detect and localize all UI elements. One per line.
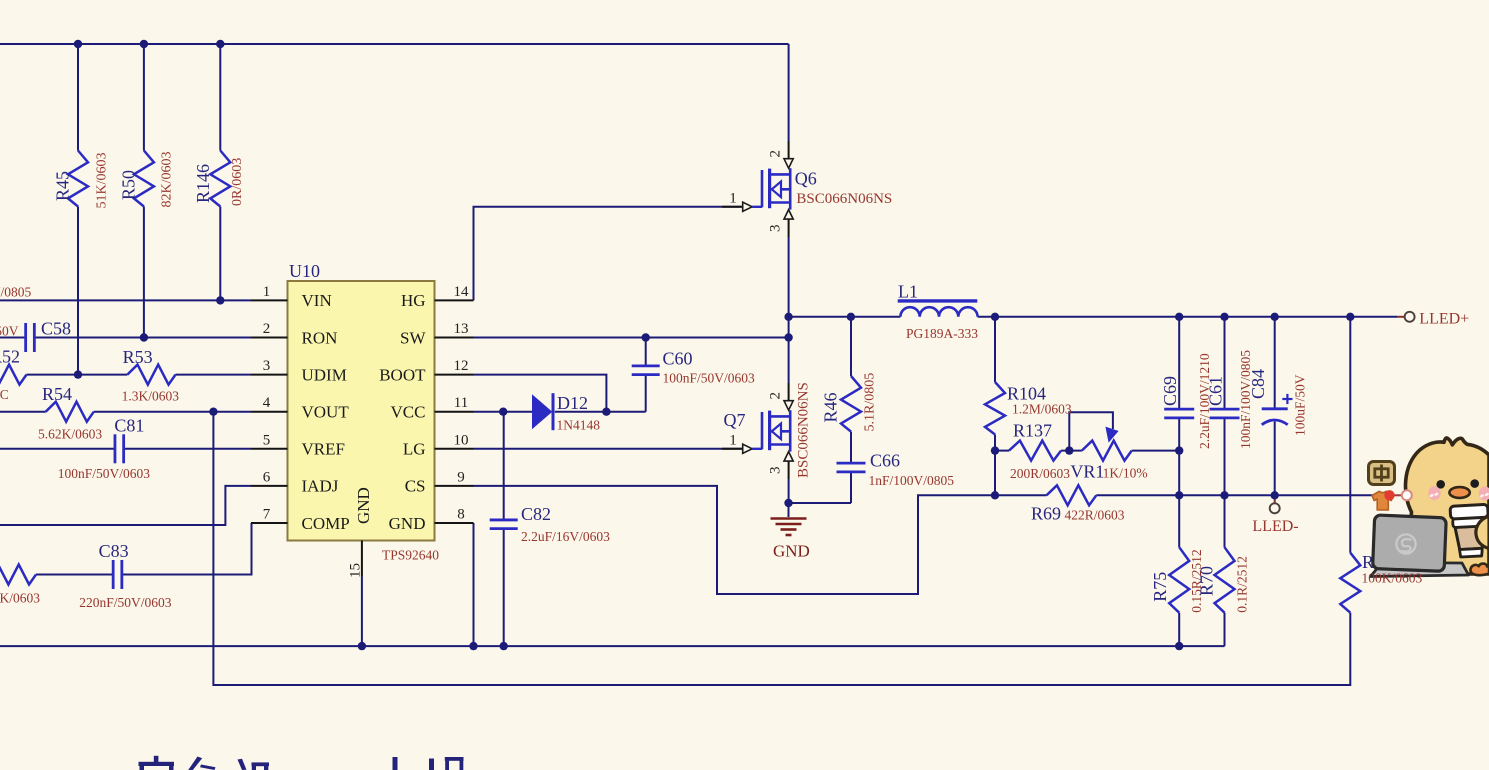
svg-text:PG189A-333: PG189A-333 — [906, 326, 978, 341]
svg-text:R104: R104 — [1007, 384, 1046, 404]
svg-text:7: 7 — [263, 507, 271, 523]
svg-text:C81: C81 — [114, 416, 144, 436]
svg-text:2: 2 — [768, 392, 784, 400]
svg-text:LG: LG — [403, 440, 426, 459]
svg-text:R70: R70 — [1197, 566, 1217, 596]
svg-text:R69: R69 — [1031, 504, 1061, 524]
svg-text:6: 6 — [263, 469, 271, 485]
svg-text:1.2M/0603: 1.2M/0603 — [1012, 402, 1072, 417]
svg-text:R75: R75 — [1150, 572, 1170, 602]
svg-text:14: 14 — [454, 284, 470, 300]
svg-text:5.62K/0603: 5.62K/0603 — [38, 427, 102, 442]
svg-text:C58: C58 — [41, 319, 71, 339]
svg-text:Q7: Q7 — [724, 410, 746, 430]
svg-text:Q6: Q6 — [795, 169, 817, 189]
svg-text:10: 10 — [454, 432, 469, 448]
svg-text:9: 9 — [457, 469, 465, 485]
svg-text:VCC: VCC — [391, 403, 426, 422]
svg-text:IADJ: IADJ — [302, 477, 339, 496]
svg-text:2: 2 — [263, 321, 271, 337]
svg-text:1nF/100V/0805: 1nF/100V/0805 — [869, 473, 955, 488]
svg-text:TPS92640: TPS92640 — [382, 548, 439, 563]
svg-text:1N4148: 1N4148 — [557, 418, 601, 433]
svg-text:200R/0603: 200R/0603 — [1010, 466, 1070, 481]
svg-text:R45: R45 — [53, 171, 73, 201]
svg-text:GND: GND — [354, 487, 373, 524]
svg-text:100nF/50V/0603: 100nF/50V/0603 — [58, 466, 151, 481]
svg-text:100uF/50V: 100uF/50V — [1293, 374, 1308, 436]
svg-text:NC: NC — [0, 387, 9, 402]
svg-text:SW: SW — [400, 328, 426, 347]
svg-text:C83: C83 — [99, 541, 129, 561]
svg-text:1K/10%: 1K/10% — [1103, 466, 1148, 481]
svg-text:0R/0603: 0R/0603 — [230, 158, 245, 206]
svg-text:L1: L1 — [898, 282, 918, 302]
svg-text:D12: D12 — [557, 393, 588, 413]
svg-text:R54: R54 — [42, 384, 72, 404]
svg-text:12: 12 — [454, 358, 469, 374]
svg-text:11: 11 — [454, 395, 468, 411]
svg-text:15: 15 — [348, 563, 364, 578]
svg-text:1: 1 — [729, 191, 737, 207]
svg-text:VREF: VREF — [302, 440, 345, 459]
svg-text:R137: R137 — [1013, 421, 1052, 441]
svg-text:HG: HG — [401, 291, 426, 310]
svg-text:GND: GND — [773, 542, 810, 561]
svg-text:2.2uF/16V/0603: 2.2uF/16V/0603 — [521, 529, 610, 544]
svg-text:5.1R/0805: 5.1R/0805 — [863, 373, 878, 432]
svg-text:R53: R53 — [123, 347, 153, 367]
svg-text:COMP: COMP — [302, 514, 350, 533]
svg-text:C60: C60 — [663, 349, 693, 369]
svg-text:3: 3 — [768, 467, 784, 475]
svg-text:C69: C69 — [1160, 376, 1180, 406]
svg-text:BSC066N06NS: BSC066N06NS — [796, 382, 812, 478]
svg-text:R50: R50 — [118, 170, 138, 200]
svg-text:5: 5 — [263, 432, 271, 448]
svg-text:U10: U10 — [289, 261, 320, 281]
svg-text:CS: CS — [405, 477, 426, 496]
svg-text:100K/0603: 100K/0603 — [1362, 571, 1423, 586]
svg-text:VIN: VIN — [302, 291, 332, 310]
svg-text:1.3K/0603: 1.3K/0603 — [122, 389, 180, 404]
svg-text:RON: RON — [302, 328, 338, 347]
svg-text:UDIM: UDIM — [302, 365, 347, 384]
svg-text:C66: C66 — [870, 451, 900, 471]
svg-text:422R/0603: 422R/0603 — [1065, 508, 1125, 523]
svg-text:82K/0603: 82K/0603 — [160, 152, 175, 208]
svg-text:8: 8 — [457, 507, 465, 523]
svg-text:100nF/50V/0603: 100nF/50V/0603 — [663, 371, 756, 386]
svg-text:1: 1 — [729, 433, 737, 449]
svg-text:100nF/50V: 100nF/50V — [0, 324, 19, 339]
svg-text:220nF/50V/0603: 220nF/50V/0603 — [79, 595, 172, 610]
svg-text:100nF/50V/0805: 100nF/50V/0805 — [0, 285, 32, 300]
svg-text:3: 3 — [263, 358, 271, 374]
svg-text:VR1: VR1 — [1070, 462, 1104, 482]
svg-text:10K/0603: 10K/0603 — [0, 591, 40, 606]
svg-text:51K/0603: 51K/0603 — [94, 153, 109, 209]
svg-text:BSC066N06NS: BSC066N06NS — [796, 191, 892, 207]
svg-text:R46: R46 — [821, 392, 841, 422]
svg-text:BOOT: BOOT — [379, 365, 426, 384]
svg-text:LLED+: LLED+ — [1419, 311, 1469, 328]
svg-text:C82: C82 — [521, 504, 551, 524]
svg-text:R52: R52 — [0, 347, 20, 367]
svg-text:2: 2 — [768, 150, 784, 158]
svg-text:4: 4 — [263, 395, 271, 411]
svg-text:GND: GND — [389, 514, 426, 533]
svg-text:C61: C61 — [1206, 376, 1226, 406]
svg-text:LLED-: LLED- — [1252, 518, 1298, 535]
svg-text:1: 1 — [263, 284, 271, 300]
svg-text:VOUT: VOUT — [302, 403, 350, 422]
svg-text:3: 3 — [768, 225, 784, 233]
svg-text:13: 13 — [454, 321, 469, 337]
svg-text:C84: C84 — [1248, 369, 1268, 399]
svg-text:R146: R146 — [193, 164, 213, 203]
svg-text:0.1R/2512: 0.1R/2512 — [1235, 556, 1250, 613]
